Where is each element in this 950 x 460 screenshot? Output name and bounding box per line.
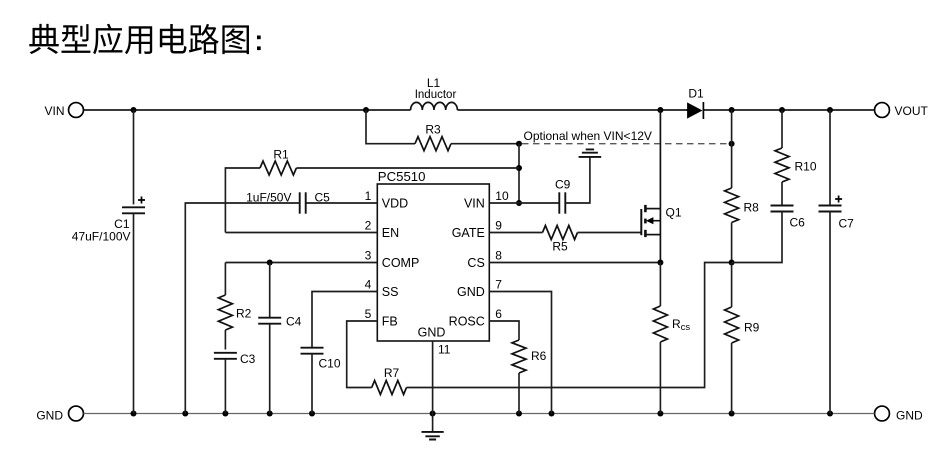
wire C3 to rail — [224, 359, 226, 414]
svg-text:ROSC: ROSC — [449, 315, 485, 329]
svg-text:VIN: VIN — [44, 104, 64, 118]
svg-text:R7: R7 — [384, 366, 400, 380]
junction top rail / C1 — [131, 107, 137, 113]
junction Q1 source / CS / Rcs — [657, 260, 663, 266]
junction bottom rail / pin7 leg — [549, 411, 555, 417]
wire C6 to divider node — [732, 212, 782, 263]
wire bottom GND rail — [84, 413, 875, 415]
junction bottom rail / C4 — [267, 411, 273, 417]
svg-text:Rcs: Rcs — [672, 317, 690, 333]
svg-text:GND: GND — [457, 285, 485, 299]
svg-text:PC5510: PC5510 — [378, 169, 426, 184]
wire ground stem — [432, 414, 434, 432]
wire Rcs to rail — [659, 342, 661, 414]
resistor R10 — [775, 148, 789, 182]
wire R10 to C6 — [781, 182, 783, 206]
svg-text:CS: CS — [467, 256, 484, 270]
dashed wire optional link — [522, 143, 732, 145]
capacitor C9 — [558, 192, 560, 213]
svg-text:C4: C4 — [286, 315, 302, 329]
title 典型应用电路图: — [29, 24, 249, 55]
wire COMP to R2 — [224, 263, 226, 296]
resistor Rcs — [653, 306, 667, 342]
wire C1 bottom leg — [133, 213, 135, 413]
diode D1 — [687, 102, 702, 118]
svg-text:9: 9 — [495, 219, 502, 233]
wire FB pin5 down — [347, 321, 378, 388]
wire R6 to rail — [518, 373, 520, 414]
op-amp U1 PC5510 body — [377, 184, 489, 341]
capacitor C6 — [771, 205, 794, 207]
resistor R5 — [543, 226, 578, 240]
capacitor C4 — [258, 317, 281, 319]
svg-text:8: 8 — [495, 249, 502, 263]
wire GATE pin9 to R5 — [489, 232, 542, 234]
junction top rail / C7 — [827, 107, 833, 113]
junction bottom rail / C7 — [827, 411, 833, 417]
svg-text:Q1: Q1 — [666, 206, 682, 220]
svg-text:4: 4 — [365, 278, 372, 292]
wire top rail D1 cathode to VOUT — [704, 109, 875, 111]
wire top rail VIN to L1 — [84, 109, 411, 111]
svg-text:1: 1 — [365, 189, 372, 203]
wire COMP to C4 — [269, 263, 271, 318]
wire R8 top leg — [731, 110, 733, 188]
svg-text:L1: L1 — [427, 76, 441, 90]
junction top rail / R8 branch — [729, 107, 735, 113]
svg-text:R3: R3 — [425, 123, 441, 137]
wire C9 to ground leg — [565, 157, 590, 203]
svg-text:SS: SS — [382, 285, 399, 299]
ground symbol — [422, 432, 444, 440]
wire C1 top leg — [133, 110, 135, 204]
svg-text:11: 11 — [438, 343, 451, 357]
wire node to C9 — [519, 202, 559, 204]
terminal VOUT — [875, 103, 890, 118]
wire Rcs top leg — [659, 263, 661, 307]
resistor R3 — [415, 137, 451, 151]
junction bottom rail / Rcs — [657, 411, 663, 417]
junction divider node R8/R9/C6 — [729, 260, 735, 266]
resistor R1 — [260, 161, 296, 175]
junction bottom rail / C1 — [131, 411, 137, 417]
svg-text:FB: FB — [382, 315, 398, 329]
wire R3 branch left leg — [366, 110, 415, 144]
wire R8 bottom leg — [731, 223, 733, 263]
svg-text:R5: R5 — [552, 240, 568, 254]
capacitor C1 — [122, 206, 145, 208]
resistor R7 — [372, 381, 407, 395]
svg-text:R6: R6 — [531, 349, 547, 363]
wire top rail L1 to D1 anode — [457, 109, 688, 111]
svg-text:3: 3 — [365, 249, 372, 263]
terminal GND left — [69, 406, 84, 421]
wire R2 to C3 — [224, 330, 226, 350]
wire VIN pin10 to node — [489, 202, 519, 204]
svg-text:EN: EN — [382, 226, 399, 240]
wire R1 to node — [296, 167, 519, 169]
svg-text:GND: GND — [896, 409, 923, 423]
svg-text:10: 10 — [495, 189, 509, 203]
junction node R1 — [516, 165, 522, 171]
wire CS pin8 — [489, 262, 660, 264]
resistor R8 — [725, 188, 739, 223]
wire GND pin11 leg — [432, 341, 434, 414]
wire node vertical — [518, 144, 520, 203]
junction bottom rail / R6 — [516, 411, 522, 417]
junction top rail / R3 branch — [363, 107, 369, 113]
svg-text:R2: R2 — [236, 307, 252, 321]
svg-text:COMP: COMP — [382, 256, 420, 270]
junction bottom rail / R9 — [729, 411, 735, 417]
junction bottom rail / C10 — [309, 411, 315, 417]
svg-text:GND: GND — [418, 326, 446, 340]
wire C4 to rail — [269, 324, 271, 414]
capacitor C5 — [299, 192, 301, 213]
wire C7 top leg — [829, 110, 831, 206]
svg-text:GATE: GATE — [452, 226, 485, 240]
junction top rail / Q1 drain — [657, 107, 663, 113]
svg-text:VDD: VDD — [382, 197, 408, 211]
svg-text:6: 6 — [495, 307, 502, 321]
capacitor C3 — [214, 352, 237, 354]
svg-text:5: 5 — [365, 307, 372, 321]
transistor Q1 — [640, 209, 642, 235]
capacitor C7 — [819, 205, 842, 207]
svg-text:C6: C6 — [790, 216, 806, 230]
wire C10 to rail — [311, 354, 313, 414]
svg-text:R8: R8 — [744, 201, 760, 215]
wire R3 to node — [451, 143, 519, 145]
wire C5 to ground leg — [185, 203, 300, 414]
wire ROSC pin6 — [489, 321, 519, 340]
junction COMP / C4 — [267, 260, 273, 266]
svg-text:7: 7 — [495, 278, 502, 292]
resistor R6 — [512, 340, 526, 373]
junction bottom rail / pin11 — [430, 411, 436, 417]
resistor R9 — [725, 307, 739, 343]
svg-text:R1: R1 — [273, 148, 289, 162]
svg-text:2: 2 — [365, 219, 372, 233]
svg-text:VOUT: VOUT — [895, 104, 929, 118]
capacitor C10 — [301, 347, 324, 349]
ground symbol inverted — [579, 149, 602, 157]
terminal GND right — [875, 406, 890, 421]
junction top rail / R10 branch — [779, 107, 785, 113]
svg-text:Inductor: Inductor — [415, 89, 457, 101]
svg-text:C10: C10 — [319, 357, 341, 371]
wire R9 to rail — [731, 343, 733, 414]
wire SS pin4 — [312, 292, 377, 348]
svg-text:47uF/100V: 47uF/100V — [72, 230, 131, 244]
wire R1 left leg from EN — [225, 168, 260, 233]
wire C7 to rail — [829, 212, 831, 414]
wire R5 to Q1 gate — [578, 232, 642, 234]
junction node R3/dashed — [516, 141, 522, 147]
wire R9 top leg — [731, 263, 733, 308]
terminal VIN — [69, 103, 84, 118]
svg-text:GND: GND — [36, 409, 63, 423]
resistor R2 — [218, 295, 232, 330]
junction node pin10 — [516, 200, 522, 206]
inductor L1 — [411, 102, 458, 110]
svg-text:VIN: VIN — [464, 197, 485, 211]
wire COMP pin3 — [225, 262, 377, 264]
wire EN pin2 — [225, 232, 377, 234]
svg-text:C7: C7 — [839, 217, 855, 231]
svg-text:D1: D1 — [688, 87, 704, 101]
svg-text:C3: C3 — [240, 352, 256, 366]
junction bottom rail / C5 leg — [182, 411, 188, 417]
wire R10 top leg — [781, 110, 783, 148]
wire VDD pin1 to C5 — [306, 202, 378, 204]
junction bottom rail / C3 — [222, 411, 228, 417]
svg-text:C5: C5 — [315, 191, 331, 205]
junction dashed / R8 branch — [729, 141, 735, 147]
svg-text:C9: C9 — [555, 178, 571, 192]
wire GND pin7 leg — [489, 292, 551, 414]
svg-text:Optional when VIN<12V: Optional when VIN<12V — [524, 129, 652, 143]
wire D1 anode lead — [686, 109, 689, 111]
svg-text:R10: R10 — [795, 160, 817, 174]
wire R7 to divider node — [407, 263, 732, 388]
svg-text:R9: R9 — [744, 321, 760, 335]
